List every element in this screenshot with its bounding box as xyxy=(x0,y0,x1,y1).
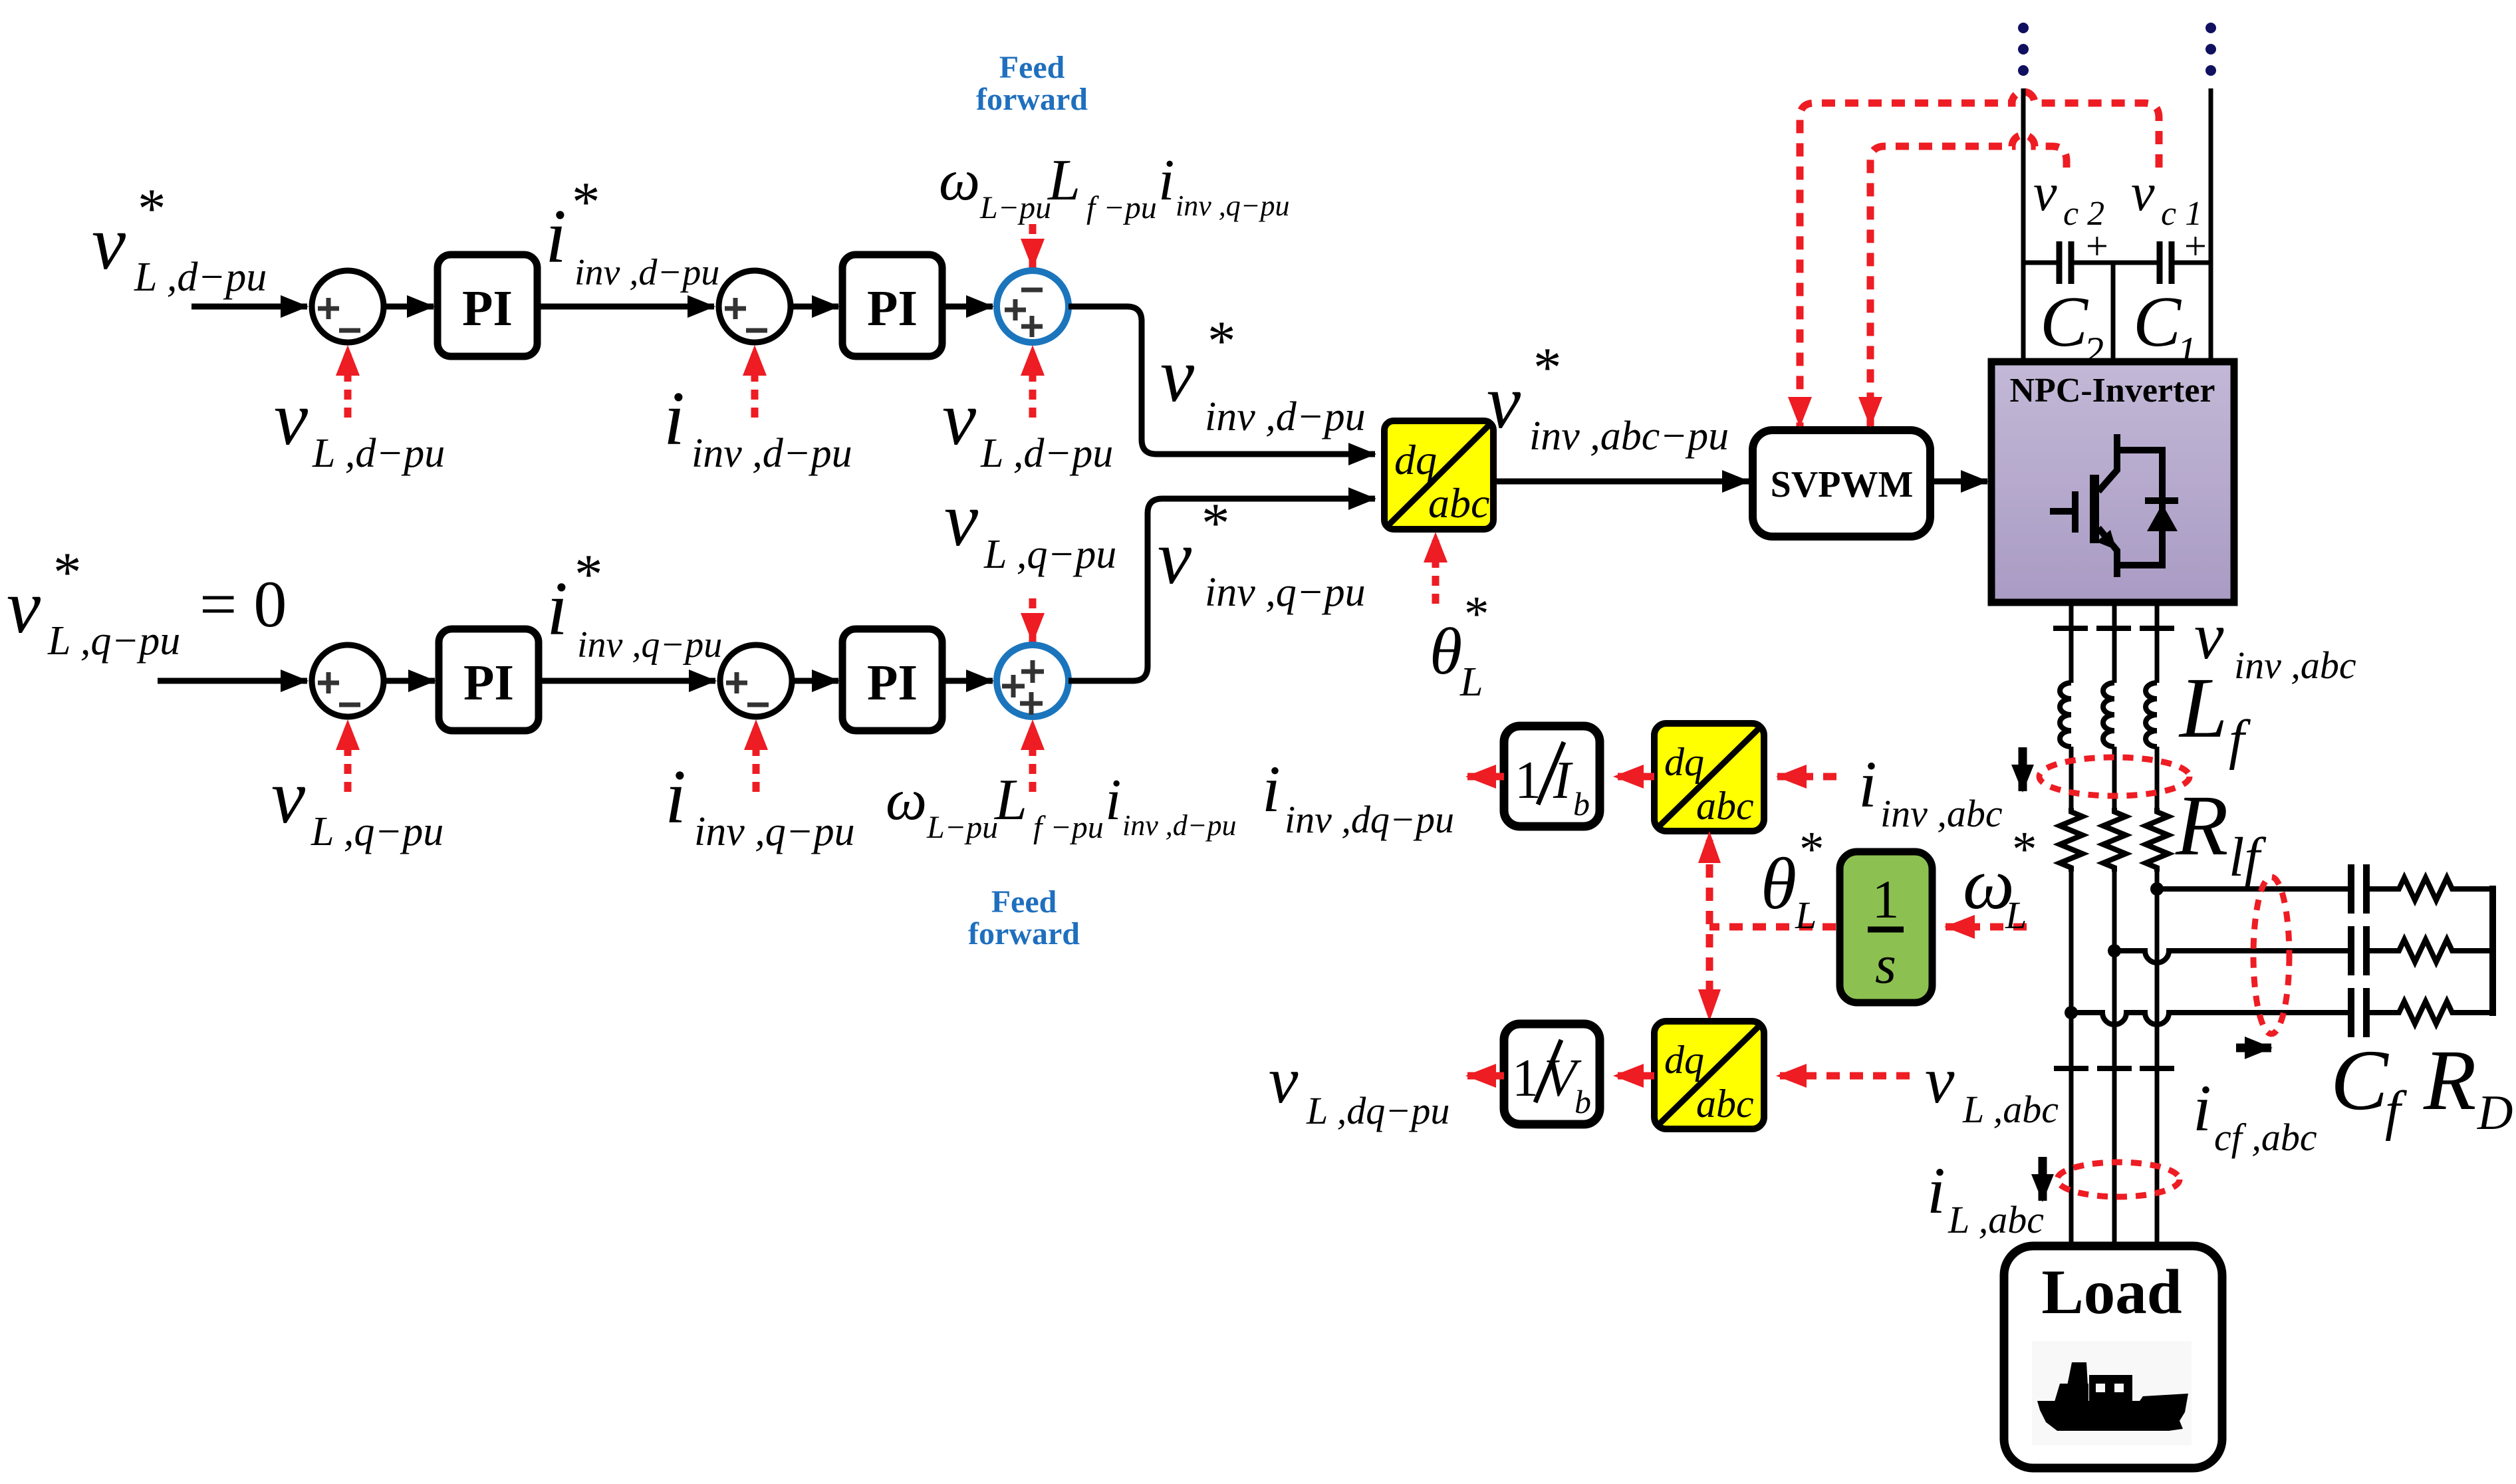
svg-text:inv ,d−pu: inv ,d−pu xyxy=(1205,394,1366,439)
red dashed wire dq/abc to 1/Vb xyxy=(1614,1072,1654,1080)
label v_L,q-pu (feed-forward, above S6) xyxy=(944,477,1116,577)
label i_cf,abc xyxy=(2193,1071,2317,1159)
svg-text:Feed: Feed xyxy=(999,50,1065,85)
svg-text:dq: dq xyxy=(1664,1038,1704,1082)
svg-text:*: * xyxy=(1207,310,1236,372)
feed-forward label (top): w_L-pu L_f-pu i_inv,q-pu xyxy=(939,148,1289,225)
svg-text:abc: abc xyxy=(1428,479,1489,527)
wire input to summing junction S1 xyxy=(191,304,307,310)
DC wire left (negative rail) xyxy=(2021,88,2026,362)
node c branch junction xyxy=(2150,882,2164,896)
wire S3 output to dq/abc block (d input) xyxy=(1069,307,1375,454)
ship icon background xyxy=(2032,1341,2192,1445)
svg-text:i: i xyxy=(665,755,686,839)
capacitor C1 xyxy=(2160,241,2172,284)
red dashed feed-forward arrow into S3 from bottom (v_L,d-pu) xyxy=(1029,346,1037,418)
red dashed CT ellipse around phase wires (i_inv) xyxy=(2039,757,2190,796)
label i*_inv,q-pu xyxy=(547,543,722,666)
svg-text:*: * xyxy=(138,178,166,240)
svg-text:inv ,q−pu: inv ,q−pu xyxy=(1205,570,1366,615)
wire PI3 to summing junction S5 xyxy=(539,678,715,684)
dq/abc measurement block (currents) xyxy=(1654,723,1764,831)
svg-text:PI: PI xyxy=(867,655,918,711)
svg-text:L−pu: L−pu xyxy=(979,190,1051,225)
svg-text:θ: θ xyxy=(1761,843,1797,924)
v_L measurement tick marks xyxy=(2054,1066,2174,1071)
svg-text:ω: ω xyxy=(939,148,980,213)
svg-text:L: L xyxy=(1795,894,1817,937)
svg-text:D: D xyxy=(2477,1086,2513,1140)
label v_L,q-pu (feedback) xyxy=(271,755,443,854)
svg-text:f −pu: f −pu xyxy=(1033,810,1104,845)
svg-text:L: L xyxy=(2178,660,2227,756)
svg-text:L ,q−pu: L ,q−pu xyxy=(311,809,443,854)
filter branch wire b (middle, hops over phase c) xyxy=(2114,951,2493,963)
svg-text:inv ,q−pu: inv ,q−pu xyxy=(694,809,855,854)
DC midpoint wire xyxy=(2111,263,2116,362)
summing junction S2 xyxy=(719,271,791,342)
DC rail dots (right column) xyxy=(2205,23,2216,76)
label i_inv,abc xyxy=(1858,747,2003,835)
svg-text:*: * xyxy=(574,543,603,606)
svg-text:dq: dq xyxy=(1394,436,1437,483)
node a branch junction xyxy=(2065,1006,2078,1019)
label C_1 xyxy=(2133,283,2197,373)
svg-text:i: i xyxy=(1858,747,1877,821)
ship windows xyxy=(2096,1384,2124,1392)
node b branch junction xyxy=(2108,944,2121,957)
svg-text:SVPWM: SVPWM xyxy=(1771,464,1914,505)
red dashed output arrow i_inv,dq-pu xyxy=(1467,773,1504,781)
damping resistor RD (phase a) xyxy=(2394,1001,2460,1024)
svg-text:abc: abc xyxy=(1696,784,1754,828)
wire PI to summing junction S2 xyxy=(537,304,714,310)
PI controller (voltage, q) xyxy=(439,629,539,731)
svg-text:L: L xyxy=(993,768,1027,832)
wire PI2 to summing junction S3 xyxy=(942,304,993,310)
svg-text:C: C xyxy=(2133,283,2182,362)
ship icon xyxy=(2037,1362,2188,1431)
dq/abc measurement block (voltages) xyxy=(1654,1021,1764,1129)
label v_c2 xyxy=(2033,164,2104,233)
svg-text:inv ,abc−pu: inv ,abc−pu xyxy=(1529,414,1729,459)
label C_f xyxy=(2330,1033,2408,1142)
DC link horizontal wire segments xyxy=(2023,261,2059,265)
svg-text:PI: PI xyxy=(867,281,918,336)
phase wire b (middle) segments xyxy=(2112,602,2117,1246)
red dashed wire i_inv,abc into dq/abc (current) xyxy=(1777,773,1836,781)
svg-text:v: v xyxy=(942,376,977,461)
red dashed wire dq/abc to 1/Ib xyxy=(1614,773,1654,781)
svg-text:i: i xyxy=(547,566,568,651)
svg-text:i: i xyxy=(2193,1071,2211,1145)
svg-text:v: v xyxy=(271,755,306,839)
svg-text:I: I xyxy=(1553,751,1573,810)
svg-text:v: v xyxy=(2131,164,2155,222)
label theta*_L (PLL) xyxy=(1761,822,1824,937)
IGBT Q1 inside NPC block xyxy=(2050,434,2162,577)
Load block xyxy=(2004,1246,2222,1468)
summing junction S3 (blue, feed-forward) xyxy=(997,271,1069,342)
svg-text:L ,d−pu: L ,d−pu xyxy=(312,431,445,476)
wire input to summing junction S4 xyxy=(158,678,307,684)
svg-text:*: * xyxy=(572,171,600,233)
NPC-Inverter block xyxy=(1991,362,2234,602)
svg-text:C: C xyxy=(2330,1033,2389,1128)
red dashed CT ellipse around phase wires (i_L) xyxy=(2057,1162,2180,1197)
filter branch wire c (top) xyxy=(2157,886,2493,892)
svg-text:*: * xyxy=(1533,336,1562,399)
svg-text:inv ,abc: inv ,abc xyxy=(2234,644,2356,687)
Feed forward text (bottom, blue) xyxy=(968,884,1080,951)
i_inv,abc measurement arrow (black, down) xyxy=(2019,747,2027,791)
svg-text:Feed: Feed xyxy=(991,884,1057,920)
svg-text:1: 1 xyxy=(1872,869,1900,929)
PI controller (current, q) xyxy=(842,629,942,731)
DC rail dots (left column) xyxy=(2018,23,2029,76)
svg-text:v: v xyxy=(1269,1043,1299,1117)
svg-text:ω: ω xyxy=(886,768,927,832)
red dashed feedback arrow into S4 (v_L,q-pu) xyxy=(344,721,352,792)
label w*_L xyxy=(1963,822,2037,937)
svg-text:L: L xyxy=(1047,148,1080,213)
red dashed feedback arrow into S5 (i_inv,q-pu) xyxy=(753,721,760,792)
svg-text:PI: PI xyxy=(462,281,513,336)
summing junction S5 xyxy=(720,645,792,717)
SVPWM block xyxy=(1753,430,1930,537)
svg-text:inv ,d−pu: inv ,d−pu xyxy=(574,252,719,293)
theta arrowhead into upper dq/abc xyxy=(1698,831,1721,863)
label v_L,d-pu (feedback) xyxy=(274,376,445,476)
damping resistor RD (phase b) xyxy=(2394,939,2460,962)
red dashed theta input arrow into dq/abc bottom xyxy=(1432,533,1440,604)
red dashed CT ellipse (vertical, i_cf) xyxy=(2253,877,2289,1034)
label L_f xyxy=(2178,660,2251,771)
label R_lf xyxy=(2175,778,2267,888)
svg-text:*: * xyxy=(1201,492,1230,555)
svg-text:L ,d−pu: L ,d−pu xyxy=(980,431,1113,476)
svg-text:θ: θ xyxy=(1430,614,1462,688)
svg-text:Load: Load xyxy=(2041,1257,2182,1327)
red dashed output arrow v_L,dq-pu xyxy=(1467,1072,1504,1080)
svg-text:C: C xyxy=(2040,283,2089,362)
red dashed wire v_L,abc into dq/abc (voltage) xyxy=(1777,1072,1910,1080)
svg-text:i: i xyxy=(1262,752,1281,826)
svg-text:forward: forward xyxy=(968,916,1080,951)
PI controller (current, d) xyxy=(842,255,942,356)
wire S4 to PI box 3 xyxy=(384,678,435,684)
svg-text:R: R xyxy=(2423,1033,2476,1128)
label v*_inv,abc-pu xyxy=(1487,336,1729,459)
damping resistor RD (phase c) xyxy=(2394,878,2460,900)
svg-text:*: * xyxy=(53,541,82,604)
label v*_inv,d-pu xyxy=(1160,310,1366,439)
wire S2 to PI box 2 xyxy=(791,304,838,310)
capacitor Cf (phase b) xyxy=(2351,926,2366,975)
phase wire a (left) segments xyxy=(2069,602,2074,1246)
svg-text:NPC-Inverter: NPC-Inverter xyxy=(2010,372,2215,410)
red dashed feed-forward arrow into S6 from top xyxy=(1029,598,1037,642)
label i_L,abc xyxy=(1927,1154,2044,1241)
label v*_inv,q-pu xyxy=(1158,492,1366,615)
svg-text:inv ,abc: inv ,abc xyxy=(1880,792,2003,835)
svg-text:abc: abc xyxy=(1696,1082,1754,1126)
label i_inv,d-pu (feedback) xyxy=(664,376,852,476)
red dashed feed-forward arrow into S6 from bottom xyxy=(1029,721,1037,792)
svg-text:L: L xyxy=(2005,894,2027,937)
common bar joining RD branches xyxy=(2489,886,2496,1016)
capacitor Cf (phase a) xyxy=(2351,988,2366,1037)
svg-text:L ,abc: L ,abc xyxy=(1962,1088,2059,1131)
svg-text:L ,abc: L ,abc xyxy=(1948,1198,2044,1241)
svg-text:= 0: = 0 xyxy=(199,567,287,641)
wire PI4 to summing junction S6 xyxy=(942,678,993,684)
svg-text:i: i xyxy=(545,194,566,279)
capacitor Cf (phase c) xyxy=(2351,864,2366,914)
free-wheeling diode D1 xyxy=(2145,501,2178,531)
svg-text:cf ,abc: cf ,abc xyxy=(2214,1116,2317,1159)
inductor Lf phase a xyxy=(2060,683,2071,747)
summing junction S6 (blue, feed-forward) xyxy=(997,645,1069,717)
red dashed theta distribution line (vertical) xyxy=(1706,839,1713,1001)
svg-text:*: * xyxy=(1464,586,1489,642)
theta arrowhead into lower dq/abc xyxy=(1698,989,1721,1021)
i_cf,abc measurement arrow (black, right) xyxy=(2236,1044,2271,1052)
PI controller (voltage, d) xyxy=(438,255,537,356)
svg-text:f −pu: f −pu xyxy=(1086,190,1157,225)
red dashed gate line B (vc2 sense to SVPWM) xyxy=(1870,135,2067,426)
DC wire right (positive rail) xyxy=(2209,88,2213,362)
phase wire c (right) segments xyxy=(2155,602,2160,1246)
svg-text:v: v xyxy=(1158,515,1192,600)
svg-text:v: v xyxy=(1925,1043,1955,1117)
v_inv measurement tick marks xyxy=(2053,626,2174,631)
svg-text:L ,dq−pu: L ,dq−pu xyxy=(1306,1089,1449,1132)
red dashed wire 1/s output to theta line xyxy=(1709,924,1836,931)
svg-text:inv ,q−pu: inv ,q−pu xyxy=(577,624,722,666)
gain block 1/Ib xyxy=(1504,726,1600,826)
label i*_inv,d-pu xyxy=(545,171,719,293)
label v_c1 xyxy=(2131,164,2202,233)
svg-text:forward: forward xyxy=(976,82,1088,117)
resistor Rlf phase a xyxy=(2060,808,2082,872)
red dashed feed-forward arrow into S3 from top xyxy=(1029,224,1037,268)
red dashed feedback arrow into S2 (i_inv,d-pu) xyxy=(751,346,759,418)
svg-text:i: i xyxy=(1158,148,1174,213)
svg-text:i: i xyxy=(1927,1154,1946,1227)
svg-text:v: v xyxy=(1160,333,1195,418)
capacitor C2 xyxy=(2059,241,2071,284)
svg-text:*: * xyxy=(2012,822,2037,877)
feed-forward label (bottom): w_L-pu L_f-pu i_inv,d-pu xyxy=(886,768,1236,845)
svg-text:v: v xyxy=(1487,360,1521,444)
svg-text:L: L xyxy=(1459,660,1483,705)
label v_L,abc xyxy=(1925,1043,2059,1131)
red dashed wire w*_L into 1/s xyxy=(1946,924,2027,931)
resistor Rlf phase c xyxy=(2146,808,2168,872)
svg-text:v: v xyxy=(92,201,126,285)
summing junction S1 xyxy=(312,271,384,342)
inductor Lf phase b xyxy=(2103,683,2114,747)
wire SVPWM to NPC-Inverter xyxy=(1930,479,1987,485)
svg-text:i: i xyxy=(1105,768,1121,832)
dq/abc transform block U1 xyxy=(1384,421,1493,529)
wire dq/abc to SVPWM xyxy=(1493,479,1749,485)
label i_inv,dq-pu xyxy=(1262,752,1454,841)
label v_L,dq-pu xyxy=(1269,1043,1449,1132)
svg-text:v: v xyxy=(7,564,41,649)
svg-text:i: i xyxy=(664,376,685,461)
svg-text:L ,q−pu: L ,q−pu xyxy=(47,618,180,664)
label R_D xyxy=(2423,1033,2513,1140)
label v*_L,d-pu (reference input) xyxy=(92,178,267,300)
red dashed gate line A (vc1 sense to SVPWM) xyxy=(1800,92,2159,426)
svg-text:R: R xyxy=(2175,778,2228,874)
wire S6 output to dq/abc block (q input) xyxy=(1069,499,1375,681)
label i_inv,q-pu (feedback) xyxy=(665,755,855,854)
svg-text:dq: dq xyxy=(1664,740,1704,784)
Feed forward text (top, blue) xyxy=(976,50,1088,117)
label theta*_L (below main dq/abc) xyxy=(1430,586,1489,705)
wire S5 to PI box 4 xyxy=(792,678,838,684)
svg-text:v: v xyxy=(944,477,979,562)
i_L,abc measurement arrow (black, down) xyxy=(2039,1157,2047,1201)
red dashed feedback arrow into S1 (v_L,d-pu) xyxy=(344,346,352,418)
summing junction S4 xyxy=(312,645,384,717)
svg-text:L ,q−pu: L ,q−pu xyxy=(983,532,1116,577)
svg-text:v: v xyxy=(274,376,309,461)
label C_2 xyxy=(2040,283,2104,373)
svg-text:inv ,dq−pu: inv ,dq−pu xyxy=(1285,798,1454,841)
svg-text:s: s xyxy=(1875,934,1896,995)
svg-text:v: v xyxy=(2033,164,2057,222)
filter branch wire a (bottom, hops over phases b and c) xyxy=(2071,1013,2493,1025)
gain block 1/Vb xyxy=(1504,1024,1600,1124)
resistor Rlf phase b xyxy=(2103,808,2126,872)
svg-text:c 2: c 2 xyxy=(2063,195,2104,233)
svg-text:L−pu: L−pu xyxy=(926,810,998,845)
label v_L,d-pu (feed-forward, below S3) xyxy=(942,376,1113,476)
svg-text:PI: PI xyxy=(463,655,514,711)
svg-text:b: b xyxy=(1574,1083,1591,1120)
label v_inv,abc xyxy=(2194,599,2356,687)
wire S1 to PI box xyxy=(384,304,434,310)
integrator block 1/s xyxy=(1840,852,1932,1003)
svg-text:*: * xyxy=(1799,822,1824,877)
svg-text:inv ,q−pu: inv ,q−pu xyxy=(1176,189,1289,222)
svg-text:c 1: c 1 xyxy=(2161,195,2202,233)
inductor Lf phase c xyxy=(2146,683,2157,747)
svg-text:inv ,d−pu: inv ,d−pu xyxy=(692,431,852,476)
svg-text:L ,d−pu: L ,d−pu xyxy=(134,255,267,300)
label v*_L,q-pu = 0 (reference input) xyxy=(7,541,287,664)
svg-text:b: b xyxy=(1573,785,1590,822)
svg-text:inv ,d−pu: inv ,d−pu xyxy=(1122,809,1236,842)
